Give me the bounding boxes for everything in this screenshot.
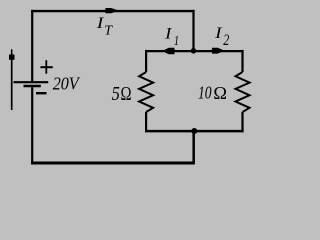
svg-text:2: 2	[223, 32, 229, 49]
svg-text:5: 5	[112, 84, 120, 105]
svg-text:10: 10	[198, 82, 212, 102]
svg-text:Ω: Ω	[213, 83, 227, 103]
svg-text:20V: 20V	[53, 73, 81, 93]
svg-text:T: T	[104, 23, 113, 38]
svg-text:I: I	[214, 25, 223, 42]
svg-text:1: 1	[174, 34, 179, 49]
svg-text:I: I	[96, 15, 105, 32]
svg-text:Ω: Ω	[121, 84, 132, 105]
svg-text:I: I	[164, 26, 172, 43]
